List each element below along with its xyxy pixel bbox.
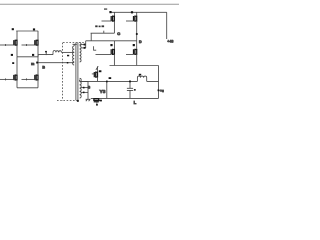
tick mark near VT9 drain — [96, 66, 98, 70]
label a (Q3) — [12, 62, 14, 64]
secondary winding lower (right of core) — [80, 78, 82, 98]
junction dot top rail col2 — [131, 11, 133, 13]
label mark on output rail — [109, 77, 112, 79]
wire: right bridge top rail — [110, 11, 167, 13]
svg-text:Y3: Y3 — [100, 89, 106, 95]
secondary winding upper (right of core) — [80, 43, 81, 63]
svg-text:D: D — [139, 40, 142, 44]
chassis ground bar — [86, 98, 91, 100]
wire: bottom rail extension right — [137, 65, 159, 67]
junction dot C1 top — [129, 81, 131, 83]
transistor Q8 (lower-right) — [134, 49, 137, 55]
wire: +48 feed drop — [166, 12, 168, 39]
wire: Q2 drain lead — [37, 31, 39, 40]
wire: lower secondary tap B — [81, 91, 88, 93]
transistor Q5 (upper-left) — [111, 16, 114, 22]
transistor Q2 (upper-right) — [35, 40, 38, 46]
wire: Q8 drain lead — [136, 41, 138, 50]
gate tick Q2 — [26, 44, 28, 46]
capacitor C1 plates — [127, 88, 133, 90]
svg-text:+u: +u — [160, 89, 164, 93]
choke bumps on upper output line — [53, 51, 62, 53]
junction dot on extension — [45, 51, 47, 53]
wire: left bridge bottom rail — [17, 87, 38, 89]
svg-text:B: B — [88, 85, 91, 89]
shield terminal x-mark bottom right — [77, 100, 79, 102]
gate tick Q3 — [5, 78, 7, 80]
stub corner near Q7 gate — [94, 46, 97, 50]
choke on output rail — [137, 76, 146, 81]
label mark VT9 — [99, 70, 102, 72]
wire: Q3 gate lead — [0, 78, 14, 80]
wire: mid rail output extension — [38, 55, 53, 57]
wire: left bridge mid rail — [17, 56, 38, 58]
primary winding (left of core) — [73, 46, 75, 65]
shield dashed top side — [63, 42, 84, 44]
transistor Q3 (lower-left) — [14, 74, 17, 80]
wire: Q7 gate lead — [96, 54, 112, 56]
wire: VT10 gate drop lead — [96, 102, 98, 105]
shield dashed left side — [62, 43, 64, 101]
primary top stub — [73, 44, 77, 46]
transistor Q4 (lower-right) — [35, 74, 38, 80]
wire: lower secondary top tap to rail — [80, 80, 88, 82]
wire: Q1 drain lead — [16, 31, 18, 40]
wire: right bridge bottom rail — [110, 65, 137, 67]
label dot Q4 — [32, 54, 34, 56]
label mark choke — [139, 74, 141, 76]
label dot Q2 — [33, 28, 35, 30]
wire: VT9 source to output rail — [97, 77, 99, 81]
junction dot output terminal — [158, 89, 160, 91]
wire: upper output into shield box — [62, 51, 75, 53]
junction dot tap A — [83, 87, 85, 89]
wire: node C line — [91, 32, 115, 34]
wire: center tap return — [87, 81, 89, 99]
junction dot load branch — [106, 81, 108, 83]
transistor VT10 (lower sync rectifier) — [93, 99, 99, 102]
label dot Q3 — [11, 54, 13, 56]
junction dot on Q6 column — [136, 33, 138, 35]
junction dot top rail col1 — [109, 11, 111, 13]
wire: Q6 drain lead — [136, 12, 138, 16]
wire: Q4 drain lead — [37, 57, 39, 75]
wire: riser to choke bumps — [52, 52, 54, 54]
wire: lower secondary tap A — [81, 87, 88, 89]
wire: secondary upper tap 1 — [80, 44, 86, 46]
wire: output bottom rail — [91, 97, 159, 99]
wire: Q2 gate lead — [22, 44, 35, 46]
wire: VT9 gate stub — [92, 73, 95, 75]
wire: node D drop to taps — [85, 41, 87, 48]
wire: Q3 source to bottom rail — [16, 80, 18, 88]
junction dot Q7 drain — [110, 44, 112, 46]
tick on node C line — [103, 31, 105, 34]
label dot Q1 — [12, 28, 14, 30]
label mark a1 (primary) — [67, 55, 69, 57]
transistor Q6 (upper-right) — [134, 16, 137, 22]
wire: right return drop — [158, 66, 160, 99]
wire: load branch vertical — [106, 81, 108, 98]
wire: Q4 source to bottom rail — [37, 80, 39, 88]
junction dot at shield crossing — [67, 62, 69, 64]
junction dot Q8 drain — [133, 44, 135, 46]
wire: left bridge top rail — [16, 30, 38, 32]
chassis ground ticks — [86, 100, 90, 102]
label mark C1 — [134, 89, 136, 91]
gate tick Q1 — [5, 44, 7, 46]
wire: Q3 drain lead — [16, 57, 18, 75]
terminal dot VT10 gate — [96, 104, 98, 106]
shield dashed bottom side — [57, 100, 78, 102]
junction dot tap B — [83, 92, 85, 94]
wire: Q7 source lead — [113, 54, 115, 65]
svg-text:C: C — [117, 31, 120, 36]
wire: Q8 source lead — [136, 54, 138, 65]
capacitor C1 top lead — [129, 81, 131, 88]
transistor Q1 (upper-left) — [14, 40, 17, 46]
svg-text:B: B — [42, 65, 45, 69]
wire: node D line — [86, 40, 137, 42]
wire: Q4 gate lead — [22, 78, 35, 80]
wire: Q5 gate lead — [102, 20, 112, 22]
wire: Q1 source to mid rail — [16, 45, 18, 57]
wire: secondary upper tap 2 — [81, 47, 86, 49]
label mark VT10 — [100, 100, 102, 102]
wire: Q1 gate lead — [0, 44, 14, 46]
junction dot tap 1 — [84, 44, 86, 46]
wire: Q5 source to node C — [113, 21, 115, 33]
wire: VT9 drain lead — [97, 66, 99, 72]
wire: Q6 gate lead — [126, 20, 134, 22]
capacitor C1 bottom lead — [129, 90, 131, 98]
svg-text:+48: +48 — [167, 40, 173, 44]
label row under gate — [95, 25, 97, 27]
gate tick Q4 — [26, 78, 28, 80]
transistor Q7 (lower-left) — [111, 49, 114, 55]
transistor VT9 (upper sync rectifier) — [94, 72, 97, 78]
svg-text:L: L — [134, 100, 137, 105]
wire: lower output line B to transformer — [38, 62, 74, 64]
wire: node C drop — [90, 33, 92, 41]
wire: Q8 gate lead — [126, 54, 134, 56]
faint label above rail — [104, 8, 107, 10]
junction dot node B — [36, 62, 38, 64]
top border line — [0, 3, 179, 5]
wire: Q7 drain lead — [113, 41, 115, 50]
junction dot tap 2 — [84, 47, 86, 49]
wire: Q5 drain lead — [113, 12, 115, 16]
wire: Q6 source to node D — [136, 21, 138, 41]
wire: Q2 source to mid rail — [37, 45, 39, 57]
wire: output rail — [81, 80, 159, 82]
transformer core line 2 — [77, 43, 79, 101]
transformer core line 1 — [75, 43, 77, 101]
svg-text:m: m — [31, 62, 34, 66]
